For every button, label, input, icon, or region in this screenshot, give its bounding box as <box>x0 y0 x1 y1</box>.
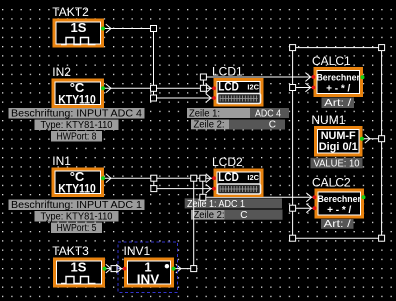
svg-text:KTY110: KTY110 <box>58 184 96 196</box>
clock generator TAKT3 <box>52 244 103 286</box>
pin: CALC2 input 2 (red) <box>313 206 317 210</box>
junction at bus top-left corner <box>290 45 296 51</box>
svg-text:°C: °C <box>70 169 85 184</box>
arrow into LCD1 pin 2 <box>206 94 211 103</box>
svg-text:Type: KTY81-110: Type: KTY81-110 <box>41 120 113 131</box>
svg-text:CALC1: CALC1 <box>312 54 351 68</box>
svg-text:HWPort: 8: HWPort: 8 <box>57 132 97 143</box>
svg-text:Art: /: Art: / <box>324 98 351 109</box>
tooltip bar: IN2 HWPort <box>51 131 102 143</box>
junction on bus at CALC2 pin2 tap <box>290 205 296 211</box>
calculator CALC1 <box>312 54 362 95</box>
svg-text:C: C <box>240 210 247 221</box>
svg-text:Type: KTY81-110: Type: KTY81-110 <box>41 212 113 223</box>
wire: TAKT3 out to INV1 in <box>105 268 123 270</box>
junction on IN2 wire at CALC1 branch <box>200 85 206 91</box>
svg-text:Digi 0/1: Digi 0/1 <box>319 141 358 153</box>
LCD display LCD2 <box>212 155 262 195</box>
junction at LCD2 pin2 branch corner <box>151 186 157 192</box>
svg-text:C: C <box>269 120 276 131</box>
svg-text:KTY110: KTY110 <box>58 95 96 107</box>
pin: LCD1 input 2 (red) <box>212 96 216 100</box>
svg-text:INV: INV <box>137 271 160 286</box>
svg-text:1S: 1S <box>71 20 87 35</box>
arrow on NUM1 output wire <box>365 134 370 143</box>
svg-text:Beschriftung: INPUT ADC 1: Beschriftung: INPUT ADC 1 <box>11 200 142 211</box>
junction at CALC1 branch corner <box>200 74 206 80</box>
sensor input IN2 <box>52 65 102 107</box>
sensor input IN1 <box>52 154 102 196</box>
clock generator TAKT2 <box>52 5 102 46</box>
svg-text:Art: /: Art: / <box>324 219 351 230</box>
numeric constant NUM1 <box>311 113 361 155</box>
arrow into LCD1 pin 1 <box>206 84 211 93</box>
tooltip bar: LCD2 Zeile 2 with value C <box>191 210 283 221</box>
junction at bus top-right corner <box>379 45 385 51</box>
junction on IN1 wire at LCD2 pin2 branch <box>151 175 157 181</box>
svg-text:+ - * /: + - * / <box>327 205 351 216</box>
selection box INV1 (dashed) <box>118 242 178 293</box>
svg-text:LCD: LCD <box>218 81 239 93</box>
svg-text:°C: °C <box>70 80 85 95</box>
svg-text:I2C: I2C <box>247 82 259 91</box>
svg-text:Berechner: Berechner <box>316 73 360 84</box>
svg-text:IN1: IN1 <box>52 154 71 168</box>
pin: CALC2 input 1 (red) <box>313 195 317 199</box>
arrow on TAKT3 output wire <box>106 264 111 273</box>
junction where INV1 riser meets IN1 wire <box>191 175 197 181</box>
tooltip bar: LCD1 Zeile 1 with value ADC 4 <box>187 108 289 119</box>
wire: branch up to CALC1 pin1 <box>203 77 311 88</box>
tooltip bar: IN2 Type <box>35 120 119 132</box>
svg-text:VALUE: 10: VALUE: 10 <box>314 158 360 169</box>
svg-text:TAKT3: TAKT3 <box>52 244 89 258</box>
tooltip bar: IN2 Beschriftung <box>9 108 145 120</box>
svg-text:LCD: LCD <box>218 172 239 184</box>
junction where TAKT2 riser crosses IN2 wire <box>151 85 157 91</box>
svg-text:Zeile 1: ADC 1: Zeile 1: ADC 1 <box>187 199 245 210</box>
svg-text:ADC 4: ADC 4 <box>255 108 281 119</box>
arrow into LCD2 pin 2 <box>206 184 211 193</box>
arrow into CALC2 pin 1 <box>306 193 311 202</box>
tooltip bar: LCD2 Zeile 1 ADC 1 (dark) <box>185 198 282 209</box>
junction at bus bottom-left corner <box>290 235 296 241</box>
tooltip bar: IN1 Beschriftung <box>9 200 145 212</box>
svg-text:IN2: IN2 <box>52 65 71 79</box>
arrow into CALC2 pin 2 <box>306 204 311 213</box>
svg-text:INV1: INV1 <box>124 244 151 258</box>
pin: TAKT2 output (green) <box>101 27 105 31</box>
pin: IN2 output (green) <box>101 86 105 90</box>
wire: IN2 out to LCD1 pin1 <box>104 87 212 89</box>
junction at TAKT2 wire lower corner <box>151 95 157 101</box>
tooltip bar: NUM1 VALUE <box>311 158 363 170</box>
wire: TAKT2 out to LCD1 pin2 <box>104 29 212 99</box>
wire: INV1 out riser <box>174 178 194 268</box>
wire: NUM1 out loop bus <box>293 48 382 239</box>
svg-text:Beschriftung: INPUT ADC 4: Beschriftung: INPUT ADC 4 <box>11 109 142 120</box>
junction on bus at NUM1 output <box>379 136 385 142</box>
arrow into CALC1 pin 2 <box>305 83 310 92</box>
tooltip bar: CALC2 Art <box>321 219 354 230</box>
calculator CALC2 <box>312 176 363 217</box>
svg-text:I2C: I2C <box>247 173 259 182</box>
svg-text:1S: 1S <box>71 260 87 275</box>
arrow into CALC1 pin 1 <box>305 73 310 82</box>
arrow on IN2 output wire <box>106 84 111 93</box>
pin: CALC2 output (green) <box>362 195 366 199</box>
svg-text:HWPort: 5: HWPort: 5 <box>57 223 97 234</box>
svg-text:+ - * /: + - * / <box>326 84 350 95</box>
svg-text:CALC2: CALC2 <box>312 176 351 190</box>
svg-text:Zeile 2:: Zeile 2: <box>194 120 225 131</box>
junction on TAKT2 wire corner <box>151 26 157 32</box>
tooltip bar: LCD1 Zeile 2 with value C <box>191 120 285 131</box>
inverter INV1 <box>124 244 173 286</box>
svg-text:LCD1: LCD1 <box>212 65 243 79</box>
arrow into INV1 input pin <box>116 264 121 273</box>
junction at bus bottom-right corner <box>379 235 385 241</box>
arrow on INV1 output wire <box>176 264 181 273</box>
svg-text:TAKT2: TAKT2 <box>52 5 89 19</box>
svg-text:Zeile 1:: Zeile 1: <box>189 108 220 119</box>
pin: INV1 input (red) <box>123 267 127 271</box>
svg-text:Zeile 2:: Zeile 2: <box>194 210 225 221</box>
junction at CALC2 branch corner <box>200 194 206 200</box>
pin: NUM1 output (green) <box>360 137 364 141</box>
wire: branch to CALC1 pin2 <box>293 87 312 89</box>
pin: LCD2 input 1 (red) <box>212 176 216 180</box>
wire: branch to LCD2 pin2 <box>154 178 212 188</box>
LCD display LCD1 <box>212 65 262 105</box>
junction on IN1 wire at CALC2 branch <box>200 175 206 181</box>
svg-text:Berechner: Berechner <box>317 194 361 205</box>
pin: CALC1 input 2 (red) <box>312 86 316 90</box>
pin: CALC1 input 1 (red) <box>312 75 316 79</box>
pin: LCD2 input 2 (red) <box>212 187 216 191</box>
arrow on IN1 output wire <box>106 174 111 183</box>
arrow into LCD2 pin 1 <box>206 174 211 183</box>
tooltip bar: IN1 HWPort <box>51 223 102 235</box>
pin: CALC1 output (green) <box>361 75 365 79</box>
svg-text:LCD2: LCD2 <box>212 155 243 169</box>
pin: INV1 output (green) <box>172 267 176 271</box>
svg-text:NUM1: NUM1 <box>311 113 345 127</box>
wire: branch down to CALC2 pin1 <box>203 178 313 197</box>
wire: branch to CALC2 pin2 <box>293 207 313 209</box>
junction between TAKT3 and INV1 <box>111 266 117 272</box>
tooltip bar: IN1 Type <box>35 211 119 223</box>
pin: TAKT3 output (green) <box>103 267 107 271</box>
junction on bus at CALC1 pin2 tap <box>290 85 296 91</box>
arrow on TAKT2 output wire <box>106 24 111 33</box>
tooltip bar: CALC1 Art <box>322 98 355 110</box>
pin: LCD1 input 1 (red) <box>212 86 216 90</box>
pin: IN1 output (green) <box>101 176 105 180</box>
wire: IN1 out to LCD2 pin1 <box>104 177 212 179</box>
junction at INV1 output corner <box>191 266 197 272</box>
